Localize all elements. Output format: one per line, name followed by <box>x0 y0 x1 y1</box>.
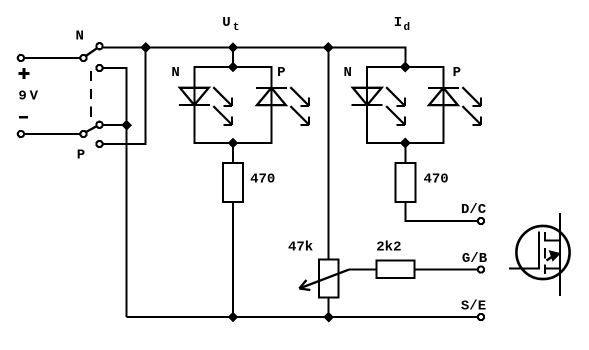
junction box1 bottom <box>228 138 237 147</box>
svg-text:2k2: 2k2 <box>376 239 401 255</box>
MOSFET Q1 gate electrode <box>538 232 540 270</box>
label P (box2 LED) <box>453 65 461 81</box>
wire box2 bottom to R2 <box>404 143 406 163</box>
wire R1 to bottom rail <box>232 202 234 317</box>
wire battery+ to switch pole <box>25 57 80 59</box>
wire battery- to switch pole <box>25 133 80 135</box>
label D/C <box>461 202 487 218</box>
svg-text:P: P <box>277 65 285 81</box>
wire S1a throw P to node B <box>103 68 126 317</box>
junction box2 bottom <box>401 138 410 147</box>
MOSFET Q1 envelope circle <box>516 226 569 279</box>
wire R3 to terminal G/B <box>415 269 478 271</box>
terminal S/E <box>478 314 484 320</box>
wire rail to box1 top <box>232 48 234 68</box>
label N (switch position) <box>75 28 83 44</box>
label Ut (test voltage) <box>222 15 239 34</box>
junction bottom rail / R1 <box>228 312 237 321</box>
terminal D/C <box>478 218 484 224</box>
label N (box2 LED) <box>343 65 351 81</box>
svg-text:U: U <box>222 15 230 31</box>
wire box1 bottom to R1 <box>232 143 234 163</box>
label S/E <box>461 299 486 315</box>
mechanical link S1 (dashed) <box>90 71 92 119</box>
svg-text:N: N <box>343 65 351 81</box>
switch S1a lever (N position) <box>87 48 97 55</box>
svg-text:V: V <box>30 88 39 104</box>
svg-text:P: P <box>453 65 461 81</box>
pot wiper arrow <box>299 270 349 290</box>
wire pot to bottom rail <box>328 298 330 318</box>
label 47k (P1 value) <box>288 239 313 255</box>
switch S1b lever (N position) <box>87 126 97 131</box>
label 9V (battery value) <box>18 88 38 104</box>
MOSFET Q1 gate lead <box>509 267 539 269</box>
label 2k2 (R3 value) <box>376 239 401 255</box>
label + (battery positive) <box>19 68 30 79</box>
switch S1b throw contact N <box>96 122 102 128</box>
svg-text:t: t <box>233 22 240 34</box>
switch S1b pole contact <box>80 131 86 137</box>
junction box1 top <box>228 62 237 71</box>
label G/B <box>462 251 488 267</box>
wire bottom rail S/E <box>127 316 478 318</box>
svg-text:I: I <box>394 15 402 31</box>
LED D2 P (box1 right, cathode up) <box>256 87 309 125</box>
svg-text:470: 470 <box>423 171 448 187</box>
MOSFET Q1 channel (dashed) <box>544 232 546 274</box>
potentiometer P1 47k body <box>319 259 339 297</box>
resistor R3 2k2 <box>376 260 414 278</box>
resistor R2 470 <box>395 163 415 202</box>
svg-text:N: N <box>171 65 179 81</box>
switch S1a throw contact P <box>96 65 102 71</box>
junction top rail / S1b-P riser <box>141 43 150 52</box>
MOSFET Q1 source stub <box>545 267 560 269</box>
label P (box1 LED) <box>277 65 285 81</box>
svg-text:470: 470 <box>250 171 275 187</box>
label 470 (R2 value) <box>423 171 448 187</box>
battery B1 positive terminal <box>18 55 24 61</box>
svg-text:9: 9 <box>18 88 26 104</box>
LED D3 N (box2 left, cathode down) <box>352 87 405 125</box>
wire wiper to R3 <box>349 269 376 271</box>
MOSFET Q1 drain-source lead <box>559 213 561 296</box>
wire S1b throw P to top rail <box>103 48 146 145</box>
junction box2 top <box>401 62 410 71</box>
label P (switch position) <box>77 148 85 164</box>
box1 outline (anti-parallel LED pair) <box>194 67 271 143</box>
MOSFET Q1 body arrow <box>547 251 561 261</box>
resistor R1 470 <box>223 163 243 202</box>
label Id (drain current) <box>394 15 410 34</box>
switch S1b throw contact P <box>96 141 102 147</box>
wire R2 to terminal D/C <box>405 202 477 221</box>
LED D4 P (box2 right, cathode up) <box>428 87 481 125</box>
battery B1 negative terminal <box>18 131 24 137</box>
label - (battery negative) <box>19 116 28 119</box>
LED D1 N (box1 left, cathode down) <box>179 87 232 125</box>
svg-text:D/C: D/C <box>461 202 487 218</box>
wire S1b throw N to node B <box>103 124 126 126</box>
svg-text:G/B: G/B <box>462 251 488 267</box>
junction bottom rail / pot <box>324 312 333 321</box>
MOSFET Q1 drain stub <box>545 239 560 241</box>
node B junction <box>122 120 131 129</box>
terminal G/B <box>478 267 484 273</box>
switch S1a throw contact N <box>96 43 102 49</box>
svg-text:d: d <box>403 22 410 34</box>
svg-text:P: P <box>77 148 85 164</box>
svg-text:S/E: S/E <box>461 299 486 315</box>
junction top rail / box1 <box>228 43 237 52</box>
box2 outline (anti-parallel LED pair) <box>367 67 444 143</box>
wire rail to potentiometer <box>327 48 329 260</box>
label N (box1 LED) <box>171 65 179 81</box>
svg-text:47k: 47k <box>288 239 313 255</box>
svg-text:N: N <box>75 28 83 44</box>
switch S1a pole contact <box>80 55 86 61</box>
junction top rail / pot riser <box>324 43 333 52</box>
wire top supply rail <box>103 48 405 68</box>
label 470 (R1 value) <box>250 171 275 187</box>
